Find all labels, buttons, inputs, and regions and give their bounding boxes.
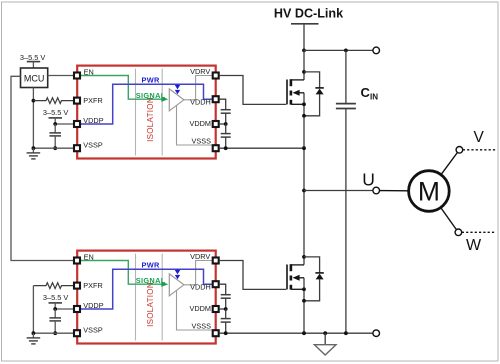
ground (power ground triangle)	[314, 333, 336, 355]
svg-text:IN: IN	[370, 93, 378, 102]
terminal DC+	[373, 47, 380, 54]
wire VSSP top	[33, 147, 73, 149]
pin VDRV U1	[213, 73, 219, 79]
wire DC bus lower segment	[303, 278, 305, 333]
svg-text:SIGNAL: SIGNAL	[136, 276, 166, 285]
wire internal VDRV to output stage U1	[184, 76, 212, 100]
node C2/VSSP junction	[53, 331, 57, 335]
node HV rail junction	[302, 49, 306, 53]
node VSSS junction U1	[224, 146, 228, 150]
svg-text:PXFR: PXFR	[83, 96, 102, 105]
pin VDRV U2	[213, 258, 219, 264]
node VDDP/supply junction bottom	[53, 307, 57, 311]
node Q1 source	[302, 102, 306, 106]
capacitor C6 (VDDM-VSSS U2)	[221, 309, 231, 333]
pin VDDP U2	[74, 306, 80, 312]
wire switch node segment	[303, 93, 305, 265]
svg-text:C: C	[361, 85, 371, 100]
wire VSSS U1 to switch node	[220, 147, 304, 149]
wire VSSP bottom	[33, 332, 73, 334]
diode D1 (body diode Q1)	[304, 72, 324, 116]
svg-text:ISOLATION: ISOLATION	[146, 282, 155, 327]
power arrows into buffer U1	[175, 84, 180, 94]
resistor R1 (PXFR top)	[33, 98, 73, 104]
pin VDDM U2	[213, 306, 219, 312]
capacitor Cin (DC-link)	[336, 50, 356, 333]
svg-text:PXFR: PXFR	[83, 281, 102, 290]
svg-text:VSSS: VSSS	[192, 137, 212, 146]
pin VDDM U1	[213, 121, 219, 127]
wire U to motor	[380, 190, 409, 192]
pin PXFR U1	[74, 98, 80, 104]
wire phase W (dashed)	[462, 231, 496, 233]
wire signal path (green) U1	[81, 76, 162, 100]
node VSSP/ground junction bottom	[32, 331, 36, 335]
svg-text:V: V	[474, 129, 485, 146]
svg-text:M: M	[418, 177, 440, 207]
node VDDM junction U2	[224, 307, 228, 311]
IC body U2	[77, 251, 216, 344]
wire MCU to EN (bottom driver, long left run)	[11, 76, 73, 260]
svg-text:MCU: MCU	[24, 73, 45, 83]
supply 3-5.5V for MCU	[20, 53, 46, 68]
pin VSSS U2	[213, 330, 219, 336]
diode D2 (body diode Q2)	[304, 257, 324, 301]
wire VDDP top	[55, 123, 73, 125]
wire internal VDRV to output stage U2	[184, 261, 212, 285]
svg-text:VSSS: VSSS	[192, 322, 212, 331]
isolation barrier lines U2	[135, 254, 137, 341]
transistor Q1 (high-side MOSFET)	[287, 79, 304, 104]
svg-text:3–5.5 V: 3–5.5 V	[20, 53, 46, 62]
transistor Q2 (low-side MOSFET)	[287, 264, 304, 289]
capacitor C2 (VDDP decoupling bottom)	[49, 309, 61, 333]
capacitor C3 (VDDH-VDDM U1)	[221, 110, 231, 124]
pin PXFR U2	[74, 283, 80, 289]
wire MCU bottom to ground	[32, 88, 34, 149]
wire VDDP bottom	[55, 308, 73, 310]
svg-text:VSSP: VSSP	[83, 140, 103, 149]
wire DC bus upper segment	[303, 50, 305, 80]
node MCU/resistor junction	[32, 99, 36, 103]
svg-text:3–5.5 V: 3–5.5 V	[43, 293, 69, 302]
node ground junction	[323, 331, 327, 335]
node VSSS junction U2	[224, 331, 228, 335]
ground (signal ground bottom)	[27, 333, 41, 344]
wire power path (blue) U1	[81, 84, 212, 124]
gate driver U2 (bottom isolated gate driver IC)	[74, 251, 219, 344]
svg-text:VDDM: VDDM	[190, 304, 212, 313]
svg-text:VDDM: VDDM	[190, 119, 212, 128]
capacitor C5 (VDDH-VDDM U2)	[221, 295, 231, 309]
wire HV stem	[303, 24, 305, 51]
capacitor C4 (VDDM-VSSS U1)	[221, 124, 231, 148]
svg-text:PWR: PWR	[142, 260, 161, 269]
svg-text:VDRV: VDRV	[190, 252, 210, 261]
wire VDDH U2 to caps	[220, 284, 226, 295]
node D2 anode junction	[302, 299, 306, 303]
svg-text:PWR: PWR	[142, 75, 161, 84]
svg-text:EN: EN	[84, 253, 94, 262]
node Cin top junction	[344, 49, 348, 53]
IC body U1	[77, 66, 216, 159]
node Q2 source	[302, 287, 306, 291]
svg-text:ISOLATION: ISOLATION	[146, 97, 155, 142]
node bus/rail bottom junction	[302, 331, 306, 335]
node Q2 drain	[302, 255, 306, 259]
gate driver U1 (top isolated gate driver IC)	[74, 66, 219, 159]
svg-text:U: U	[362, 169, 375, 189]
label Cin	[361, 85, 379, 102]
wire signal path (green) U2	[81, 261, 162, 285]
wire VDDH U1 to bootstrap caps	[220, 99, 226, 110]
pin VDDP U1	[74, 121, 80, 127]
resistor R2 (PXFR bottom)	[33, 283, 73, 289]
svg-text:VSSP: VSSP	[83, 325, 103, 334]
wire top rail	[304, 49, 373, 51]
svg-text:3–5.5 V: 3–5.5 V	[43, 108, 69, 117]
wire VDDM U2	[220, 308, 226, 310]
wire phase V (dashed)	[463, 149, 496, 151]
pin VDDH U1	[213, 96, 219, 102]
op-amp A1 (output buffer U1)	[169, 89, 184, 111]
wire VDRV U2 to gate Q2	[220, 261, 287, 290]
pin VDDH U2	[213, 281, 219, 287]
wire power path (blue) U2	[81, 269, 212, 309]
isolation barrier lines U1	[135, 69, 137, 156]
motor M1	[409, 171, 450, 212]
svg-text:VDDP: VDDP	[83, 301, 103, 310]
MCU U10	[21, 68, 48, 88]
wire internal output stage to VSSS U1	[177, 105, 212, 145]
wire VDDM U1	[220, 123, 226, 125]
node VDDP/supply junction top	[53, 122, 57, 126]
ground (signal ground top)	[27, 148, 41, 159]
svg-text:VDDH: VDDH	[190, 283, 211, 292]
svg-text:VDRV: VDRV	[190, 67, 210, 76]
svg-text:W: W	[466, 237, 482, 254]
wire MCU to EN (top driver)	[48, 75, 73, 77]
svg-text:VDDH: VDDH	[190, 98, 211, 107]
terminal U	[373, 187, 380, 194]
wire phase U	[304, 190, 373, 192]
pin VSSP U1	[74, 145, 80, 151]
svg-text:VDDP: VDDP	[83, 116, 103, 125]
svg-text:HV DC-Link: HV DC-Link	[274, 7, 344, 21]
HV DC-Link supply bar	[291, 23, 319, 25]
pin EN U2	[74, 258, 80, 264]
terminal DC-	[373, 330, 380, 337]
wire VDRV U1 to gate Q1	[220, 76, 287, 105]
capacitor C1 (VDDP decoupling top)	[49, 124, 61, 148]
op-amp A2 (output buffer U2)	[169, 274, 184, 296]
supply 3-5.5V for VDDP bottom	[43, 293, 69, 309]
pin VSSP U2	[74, 330, 80, 336]
node D1 anode junction	[302, 114, 306, 118]
svg-text:SIGNAL: SIGNAL	[136, 91, 166, 100]
pin VSSS U1	[213, 145, 219, 151]
pin EN U1	[74, 73, 80, 79]
node phase U junction	[302, 189, 306, 193]
node C1/VSSP junction	[53, 146, 57, 150]
node VSSP/ground junction top	[32, 146, 36, 150]
node Q1 drain	[302, 70, 306, 74]
supply 3-5.5V for VDDP top	[43, 108, 69, 124]
wire R2 to ground	[32, 286, 34, 334]
power arrows into buffer U2	[175, 269, 180, 279]
node switch node / VSSS junction	[302, 146, 306, 150]
terminal W	[455, 229, 462, 236]
node VDDM junction U1	[224, 122, 228, 126]
node Cin bottom junction	[344, 331, 348, 335]
wire motor to V	[441, 153, 457, 175]
wire internal output stage to VSSS U2	[177, 290, 212, 330]
svg-text:EN: EN	[84, 68, 94, 77]
wire VSSS U2 / bottom rail	[220, 332, 373, 334]
terminal V	[456, 147, 463, 154]
wire motor to W	[441, 208, 457, 230]
